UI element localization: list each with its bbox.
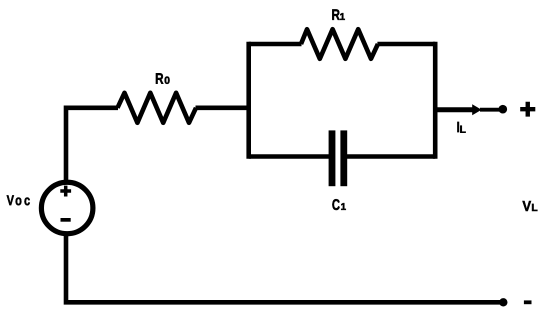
- svg-text:C: C: [332, 196, 340, 213]
- svg-text:R: R: [155, 70, 164, 87]
- svg-text:1: 1: [341, 202, 347, 213]
- svg-text:L: L: [460, 125, 466, 136]
- svg-text:L: L: [531, 203, 537, 214]
- svg-text:Voc: Voc: [7, 192, 33, 209]
- svg-text:0: 0: [164, 76, 170, 87]
- svg-text:1: 1: [340, 12, 346, 23]
